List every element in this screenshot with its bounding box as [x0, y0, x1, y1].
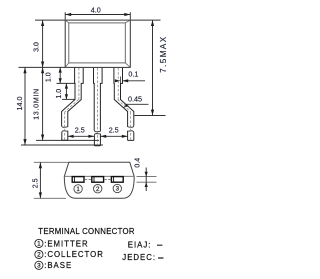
svg-text:2: 2 [37, 252, 41, 259]
svg-text:0.4: 0.4 [134, 158, 141, 168]
svg-text:14.0: 14.0 [15, 97, 24, 111]
svg-text:3.0: 3.0 [34, 42, 41, 52]
svg-text:JEDEC:: JEDEC: [122, 253, 156, 262]
svg-text:4.0: 4.0 [91, 5, 101, 14]
svg-text:TERMINAL CONNECTOR: TERMINAL CONNECTOR [38, 227, 135, 236]
svg-text:3: 3 [116, 186, 120, 193]
svg-text:0.45: 0.45 [128, 94, 142, 103]
svg-text:2: 2 [96, 186, 100, 193]
svg-text:1: 1 [37, 241, 41, 248]
svg-text:2.5: 2.5 [32, 178, 39, 188]
svg-text:2.5: 2.5 [109, 126, 119, 135]
svg-text:0.1: 0.1 [128, 69, 138, 78]
svg-text:EIAJ:: EIAJ: [128, 241, 152, 250]
svg-text::BASE: :BASE [44, 261, 72, 270]
svg-text:13.0MIN: 13.0MIN [31, 88, 40, 120]
svg-text:2.5: 2.5 [75, 126, 85, 135]
svg-text::EMITTER: :EMITTER [44, 239, 88, 248]
svg-text:7.5MAX: 7.5MAX [159, 35, 168, 73]
svg-text:1: 1 [76, 186, 80, 193]
svg-text::COLLECTOR: :COLLECTOR [44, 250, 104, 259]
svg-text:3: 3 [37, 263, 41, 270]
svg-text:1.0: 1.0 [56, 89, 63, 99]
svg-text:1.0: 1.0 [46, 72, 53, 82]
